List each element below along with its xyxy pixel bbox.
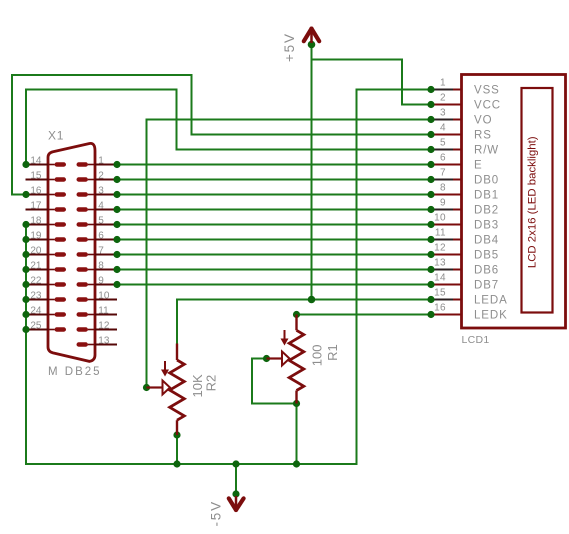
wire net R/W: X1 pin14 to LCD R/W via inner loop (26, 90, 431, 165)
LCD1 pin 5 R/W (427, 138, 499, 157)
svg-text:11: 11 (98, 305, 109, 316)
X1 pin 4 (77, 200, 121, 213)
X1 pin 2 (77, 170, 121, 183)
svg-text:DB0: DB0 (474, 175, 499, 187)
svg-text:1: 1 (440, 78, 446, 89)
junction rail / R2 bottom (173, 460, 180, 467)
svg-text:2: 2 (98, 170, 104, 181)
svg-text:R/W: R/W (474, 145, 499, 157)
junction R2 wiper (143, 384, 150, 391)
wire net DB6: X1 pin8 to LCD DB6 (117, 269, 431, 271)
junction R1 wiper (263, 355, 270, 362)
X1 pin 9 (77, 275, 121, 288)
X1 pin 25 (22, 320, 66, 333)
wire net DB4: X1 pin6 to LCD DB4 (117, 239, 431, 241)
svg-text:16: 16 (30, 185, 42, 196)
svg-text:VO: VO (474, 115, 492, 127)
svg-text:15: 15 (30, 170, 42, 181)
svg-text:19: 19 (30, 230, 42, 241)
wire net VCC branch: +5V to LCD VCC (312, 60, 432, 105)
X1 pin 18 (22, 215, 66, 228)
+5V supply symbol (304, 29, 319, 43)
svg-text:6: 6 (98, 230, 104, 241)
svg-text:R1: R1 (325, 344, 340, 361)
wire net DB7: X1 pin9 to LCD DB7 (117, 284, 431, 286)
wire R1 bottom to ground rail (296, 404, 298, 465)
LCD1 body (462, 75, 566, 329)
svg-text:4: 4 (98, 200, 104, 211)
wire net VO: LCD VO down to R2 wiper (147, 120, 432, 388)
LCD1 pin 6 E (427, 153, 482, 172)
svg-text:16: 16 (434, 303, 446, 314)
X1 pin 21 (22, 260, 66, 273)
svg-text:5: 5 (440, 138, 446, 149)
svg-text:11: 11 (435, 228, 446, 239)
wire net DB5: X1 pin7 to LCD DB5 (117, 254, 431, 256)
wire net DB3: X1 pin5 to LCD DB3 (117, 224, 431, 226)
svg-text:DB1: DB1 (474, 190, 499, 202)
svg-text:18: 18 (30, 215, 42, 226)
junction R1 top pin (293, 311, 300, 318)
LCD1 pin 11 DB4 (427, 228, 499, 247)
svg-text:LEDK: LEDK (474, 310, 508, 322)
wire net +5V: supply stem down to LEDA row (311, 45, 313, 300)
X1 pin 23 (22, 290, 66, 303)
svg-text:22: 22 (30, 275, 42, 286)
LCD1 pin 4 RS (427, 123, 491, 142)
svg-text:12: 12 (434, 243, 446, 254)
LCD1 pin 15 LEDA (427, 288, 507, 307)
svg-text:8: 8 (98, 260, 104, 271)
svg-text:7: 7 (440, 168, 446, 179)
svg-text:12: 12 (98, 320, 110, 331)
svg-text:13: 13 (98, 335, 110, 346)
svg-text:25: 25 (30, 320, 42, 331)
X1 pin 5 (77, 215, 121, 228)
trimmer R1 (100) (267, 315, 304, 404)
svg-text:4: 4 (440, 123, 446, 134)
svg-text:-5V: -5V (209, 500, 224, 526)
junction +5V / LEDA (308, 296, 316, 304)
svg-text:7: 7 (98, 245, 104, 256)
wire net DB0: X1 pin2 to LCD DB0 (117, 179, 431, 181)
X1 pin 15 (26, 170, 67, 181)
svg-text:M DB25: M DB25 (48, 366, 102, 378)
svg-text:+5V: +5V (282, 32, 297, 62)
wire net LEDA: R2 top / +5V junction to LCD LEDA (177, 300, 431, 344)
svg-text:6: 6 (440, 153, 446, 164)
X1 pin 7 (77, 245, 121, 258)
X1 pin 6 (77, 230, 121, 243)
X1 pin 14 (22, 155, 66, 168)
svg-text:E: E (474, 160, 483, 172)
svg-text:X1: X1 (48, 128, 64, 142)
X1 pin 24 (22, 305, 66, 318)
LCD1 pin 2 VCC (427, 93, 501, 112)
wire net LEDK: R1 top to LCD LEDK (297, 314, 432, 316)
X1 pin 11 (77, 305, 118, 316)
X1 pin 16 (22, 185, 66, 198)
LCD1 pin 14 DB7 (427, 273, 499, 292)
svg-text:VCC: VCC (474, 100, 501, 112)
svg-text:23: 23 (30, 290, 42, 301)
svg-text:24: 24 (30, 305, 42, 316)
X1 pin 22 (22, 275, 66, 288)
svg-text:14: 14 (30, 155, 42, 166)
svg-text:17: 17 (30, 200, 42, 211)
X1 pin 19 (22, 230, 66, 243)
X1 pin 13 (77, 335, 118, 346)
svg-text:DB2: DB2 (474, 205, 499, 217)
LCD1 pin 16 LEDK (427, 303, 507, 322)
connector X1 body (M DB25) (48, 143, 95, 361)
svg-text:LEDA: LEDA (474, 295, 508, 307)
svg-text:DB5: DB5 (474, 250, 499, 262)
X1 pin 10 (77, 290, 118, 301)
X1 pin 1 (77, 155, 121, 168)
junction -5V pin (232, 490, 239, 497)
svg-text:21: 21 (30, 260, 42, 271)
svg-text:9: 9 (440, 198, 446, 209)
svg-text:3: 3 (440, 108, 446, 119)
trimmer R2 (10K) (147, 344, 185, 436)
-5V supply symbol (229, 496, 244, 510)
svg-text:VSS: VSS (474, 85, 500, 97)
svg-text:R2: R2 (204, 375, 219, 392)
LCD1 pin 13 DB6 (427, 258, 499, 277)
junction rail / -5V stem (232, 460, 239, 467)
svg-text:LCD1: LCD1 (462, 334, 490, 346)
svg-text:DB6: DB6 (474, 265, 499, 277)
svg-text:8: 8 (440, 183, 446, 194)
svg-text:DB3: DB3 (474, 220, 499, 232)
X1 pin 12 (77, 320, 118, 331)
LCD1 pin 3 VO (427, 108, 492, 127)
svg-text:15: 15 (434, 288, 446, 299)
LCD1 display outline (522, 88, 553, 313)
svg-text:10: 10 (98, 290, 110, 301)
svg-text:1: 1 (98, 155, 104, 166)
LCD1 pin 10 DB3 (427, 213, 499, 232)
wire R1 wiper strap loop (252, 359, 297, 404)
junction R1 bottom pin (293, 400, 300, 407)
svg-text:20: 20 (30, 245, 42, 256)
svg-text:LCD 2x16 (LED backlight): LCD 2x16 (LED backlight) (527, 136, 539, 268)
svg-text:100: 100 (310, 345, 325, 367)
junction rail / R1 bottom (293, 460, 300, 467)
wire net DB1: X1 pin3 to LCD DB1 (117, 194, 431, 196)
svg-text:10: 10 (434, 213, 446, 224)
svg-text:DB7: DB7 (474, 280, 499, 292)
junction +5V stem top (308, 41, 316, 49)
wire net GND/VSS: LCD VSS down right side, bottom rail, up to X1 pins 18-25 (26, 90, 431, 465)
svg-text:9: 9 (98, 275, 104, 286)
svg-text:5: 5 (98, 215, 104, 226)
LCD1 pin 8 DB1 (427, 183, 499, 202)
svg-text:2: 2 (440, 93, 446, 104)
LCD1 pin 9 DB2 (427, 198, 499, 217)
junction R2 bottom pin (173, 431, 180, 438)
X1 pin 3 (77, 185, 121, 198)
wire net E: X1 pin1 to LCD E (117, 164, 431, 166)
X1 pin 8 (77, 260, 121, 273)
wire net RS: X1 pin16 to LCD RS via outer loop (12, 75, 431, 195)
svg-text:3: 3 (98, 185, 104, 196)
X1 pin 20 (22, 245, 66, 258)
svg-text:RS: RS (474, 130, 492, 142)
svg-text:14: 14 (434, 273, 446, 284)
wire -5V stem from rail down to supply symbol (235, 464, 237, 494)
LCD1 pin 7 DB0 (427, 168, 499, 187)
LCD1 pin 12 DB5 (427, 243, 499, 262)
svg-text:DB4: DB4 (474, 235, 499, 247)
LCD1 pin 1 VSS (427, 78, 499, 97)
X1 pin 17 (26, 200, 67, 211)
svg-text:13: 13 (434, 258, 446, 269)
wire net DB2: X1 pin4 to LCD DB2 (117, 209, 431, 211)
wire R2 bottom to ground rail (176, 435, 178, 464)
